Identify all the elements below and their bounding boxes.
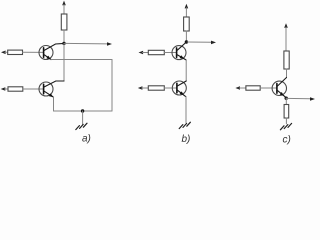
terminal input 2 b (arrow left) [138,86,149,90]
ground b [179,122,190,128]
node ground tap a (junction dot) [81,109,84,112]
resistor R8 input c [246,86,277,90]
svg-text:c): c) [283,135,291,146]
terminal input 1 b (arrow left) [139,51,149,55]
resistor R1 collector load a [61,14,67,43]
transistor Q2 [39,81,64,97]
resistor R5 input b top [148,50,176,54]
transistor Q4 [172,81,186,97]
transistor Q5 [272,78,286,98]
svg-text:b): b) [182,134,191,145]
resistor R9 emitter load c [284,105,289,124]
transistor Q1 [39,43,64,59]
wire right loop a [111,60,113,112]
ground c [280,123,291,129]
wire emitter Q1 to right loop [51,59,112,61]
terminal input c (arrow left) [235,86,246,90]
wire bus b (Q3 emitter to Q4 collector) [185,60,187,81]
resistor R3 input a bottom [8,87,44,91]
terminal input 1 a (arrow left) [1,51,8,55]
node collector bus a (junction dot) [62,42,65,45]
resistor R2 input a top [8,50,44,54]
node collector bus b (junction dot) [185,40,188,43]
wire emitter Q2 down [53,97,55,111]
wire emitter Q4 down [185,97,187,123]
wire bottom rail a [54,110,113,112]
terminal supply c (arrow up) [284,23,288,51]
wire emitter c down to resistor [285,98,287,104]
wire output b + output arrow [186,41,216,45]
ground a [76,111,87,130]
wire bus a (vertical collector bus) [63,43,65,81]
wire output c + output arrow [286,97,315,101]
resistor R6 input b bottom [148,86,177,90]
terminal input 2 a (arrow left) [1,87,8,91]
resistor R7 collector load c [284,51,289,78]
transistor Q3 [172,42,186,60]
terminal supply a (arrow up) [62,1,66,14]
terminal supply b (arrow up) [185,4,189,17]
node emitter c (junction dot) [285,97,288,100]
wire output a + output arrow [64,42,112,46]
resistor R4 collector load b [184,17,190,42]
svg-text:a): a) [82,134,91,145]
